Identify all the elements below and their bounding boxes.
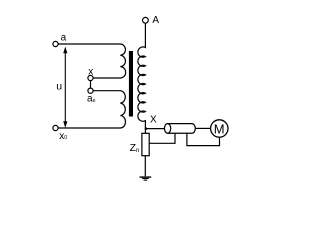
svg-text:A: A <box>152 15 159 26</box>
svg-text:a: a <box>61 33 67 44</box>
svg-text:X: X <box>150 114 157 125</box>
terminal a <box>53 41 58 46</box>
terminal x0 <box>53 125 58 130</box>
wire cable sheath right to motor frame <box>187 133 220 145</box>
terminal ae <box>88 88 93 93</box>
svg-text:u: u <box>56 81 62 93</box>
svg-text:M: M <box>214 121 225 136</box>
terminal A <box>143 17 149 23</box>
transformer core <box>129 51 133 117</box>
wire x to ae <box>90 81 92 89</box>
wire ae + primary winding lower section L1b + wire to x0 <box>58 91 125 128</box>
wire a to primary top + primary winding upper section L1a <box>58 44 126 78</box>
cable body (shielded cable) <box>168 124 196 134</box>
cable left end ellipse <box>165 124 171 134</box>
ground symbol <box>140 177 152 180</box>
wire A down + secondary winding L2 + wire to node X <box>138 23 146 133</box>
wire cable to motor <box>195 127 210 129</box>
svg-text:x: x <box>88 67 93 78</box>
motor M1 circle <box>211 120 228 137</box>
wire node X to cable <box>145 128 164 130</box>
terminal x <box>88 75 93 80</box>
wire cable sheath left to Zn <box>149 133 175 143</box>
junction dot node X <box>145 128 147 130</box>
voltage dimension line u <box>63 47 67 129</box>
impedance Zn box <box>142 133 149 155</box>
wire Zn to ground <box>144 156 146 177</box>
